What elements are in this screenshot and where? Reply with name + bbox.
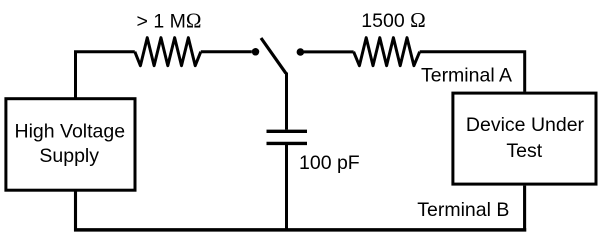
svg-text:Test: Test — [506, 140, 542, 162]
svg-text:Supply: Supply — [39, 145, 99, 167]
svg-text:Device Under: Device Under — [466, 114, 585, 136]
svg-text:100 pF: 100 pF — [299, 152, 360, 174]
svg-text:Terminal A: Terminal A — [421, 65, 512, 87]
svg-text:> 1 MΩ: > 1 MΩ — [137, 9, 202, 33]
svg-text:High Voltage: High Voltage — [15, 120, 126, 142]
svg-text:Terminal B: Terminal B — [417, 199, 509, 221]
svg-text:1500 Ω: 1500 Ω — [361, 8, 425, 32]
